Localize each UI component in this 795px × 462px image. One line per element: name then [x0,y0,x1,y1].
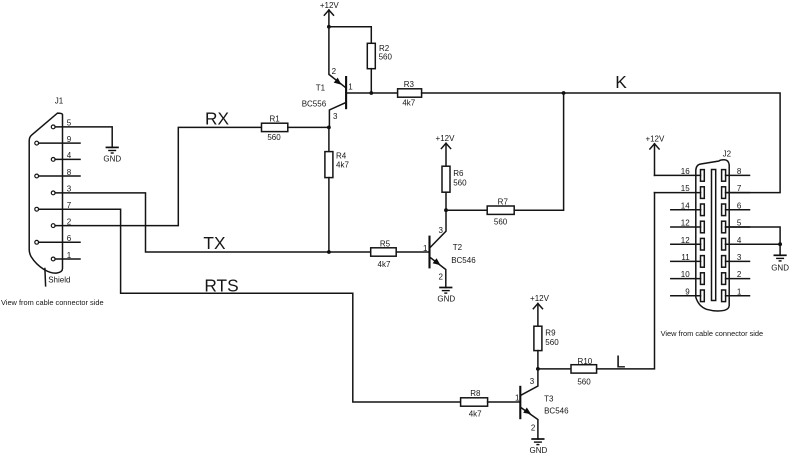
transistor T2 NPN emitter arrow [433,258,441,265]
J2 pin 8 [722,167,750,181]
svg-text:2: 2 [439,273,444,282]
svg-text:6: 6 [737,201,742,210]
J1 pin 7 [35,201,72,211]
J2 pin 4 [722,236,750,250]
wire J2 pin 5 to ground drop [726,227,781,244]
svg-text:+12V: +12V [530,294,550,303]
svg-text:T3: T3 [544,395,554,404]
svg-text:14: 14 [681,201,690,210]
resistor R9 [534,326,559,350]
svg-text:560: 560 [577,377,591,386]
svg-text:9: 9 [685,287,690,296]
wire J1 pin 5 to ground [55,127,112,147]
svg-text:1: 1 [423,244,428,253]
svg-text:BC556: BC556 [302,100,327,109]
transistor T3 emitter lead [521,407,538,439]
wire RX net: J1 pin 2 up to RX line [55,127,261,225]
svg-text:3: 3 [737,253,742,262]
node K/R7 riser junction [562,91,566,95]
transistor T2 emitter lead [430,257,446,287]
svg-text:R8: R8 [470,389,481,398]
svg-text:16: 16 [681,167,690,176]
svg-text:R6: R6 [453,169,464,178]
J2 pin 7 [722,184,750,198]
wire T3 node to R10 [538,368,571,370]
wire L net: R10 to J2 pin 15 [597,193,655,369]
svg-text:R1: R1 [269,114,280,123]
ground (T3 emitter) [530,439,548,455]
J2 pin 16 [655,167,705,181]
transistor T2 base bar [428,236,430,269]
node +12V/T1 emitter/R2 junction [327,25,331,29]
svg-text:+12V: +12V [436,134,456,143]
J1 pin 9 [35,135,80,145]
wire R2 bottom to T1 base line [370,69,372,93]
J2 pin 10 [671,270,705,284]
svg-text:View from cable connector side: View from cable connector side [1,298,104,307]
svg-text:R4: R4 [336,152,347,161]
resistor R4 [325,152,350,178]
transistor T3 NPN emitter arrow [523,408,531,415]
wire +12V node to R2 top [329,27,371,44]
wire R6 bottom to T2 node [445,192,447,210]
svg-text:Shield: Shield [48,276,70,285]
node R2/base wire junction [369,91,373,95]
svg-text:560: 560 [267,133,281,142]
svg-text:2: 2 [531,423,536,432]
svg-text:BC546: BC546 [544,407,569,416]
node R6/R7/T2 collector junction [444,208,448,212]
resistor R5 [371,239,397,269]
svg-text:3: 3 [333,112,338,121]
connector J2 center key bar [712,170,716,301]
resistor R2 [367,43,392,68]
svg-text:K: K [615,72,627,92]
svg-text:560: 560 [545,338,559,347]
ground (J2 pins 4/5) [771,255,789,272]
svg-text:1: 1 [348,82,353,91]
transistor T1 collector lead [329,102,346,127]
svg-text:RTS: RTS [204,276,238,296]
svg-text:560: 560 [453,179,467,188]
J2 pin 3 [722,253,750,267]
wire T1 base to R3 [346,92,398,94]
node TX/R4 junction [327,250,331,254]
svg-text:R2: R2 [379,44,390,53]
+12V supply symbol (J2 pin 16) [645,135,665,176]
svg-text:GND: GND [771,263,789,272]
svg-text:R7: R7 [498,197,509,206]
connector J1 outline [29,113,62,273]
wire R4 bottom to TX node [328,178,330,252]
J2 pin 15 [655,184,705,198]
svg-text:R5: R5 [380,239,391,248]
svg-text:1: 1 [67,251,72,260]
transistor T3 base bar [519,386,521,419]
svg-text:9: 9 [67,135,72,144]
transistor T1 base bar [345,76,347,109]
connector J2 outline [696,160,729,311]
J1 pin 8 [35,168,80,178]
wire R7 to K line [514,93,563,210]
svg-text:12: 12 [681,219,690,228]
resistor R3 [398,80,422,108]
resistor R6 [442,166,467,192]
wire J2 pin 4 to ground drop [726,243,781,245]
shield lead [44,269,47,286]
svg-text:+12V: +12V [320,1,340,10]
svg-text:15: 15 [681,184,690,193]
svg-text:12: 12 [681,236,690,245]
node RX/R1/T1 collector/R4 junction [327,126,331,130]
J1 pin 3 [51,185,72,195]
svg-text:L: L [616,352,626,372]
J2 pin 9 [671,287,705,301]
svg-text:View from cable connector side: View from cable connector side [661,329,764,338]
svg-text:6: 6 [67,234,72,243]
J1 pin 5 [51,119,72,129]
transistor T1 PNP emitter arrow [334,78,342,85]
J2 pin 6 [722,201,750,215]
resistor R7 [487,197,514,226]
svg-text:R10: R10 [578,357,593,366]
wire R1 to RX node [288,126,329,128]
node R9/R10/T3 collector junction [536,367,540,371]
resistor R10 [571,357,597,386]
svg-text:R9: R9 [545,328,556,337]
resistor R8 [461,389,488,418]
svg-text:GND: GND [103,155,121,164]
transistor Q T1 emitter lead [329,27,346,88]
svg-text:560: 560 [379,53,393,62]
svg-text:3: 3 [439,226,444,235]
svg-text:7: 7 [737,184,742,193]
svg-text:4k7: 4k7 [469,410,482,419]
J2 pin 12 [671,236,705,250]
J1 pin 6 [35,234,80,244]
svg-text:1: 1 [515,394,520,403]
svg-text:GND: GND [437,295,455,304]
svg-text:RX: RX [205,109,229,129]
J2 pin 1 [722,287,750,301]
svg-text:GND: GND [530,446,548,455]
svg-text:4k7: 4k7 [402,99,415,108]
wire R5 to T2 base [396,251,429,253]
J2 pin 5 [722,219,750,233]
J2 pin 11 [671,253,705,267]
svg-text:4k7: 4k7 [378,260,391,269]
ground (T2 emitter) [437,288,455,304]
svg-text:J2: J2 [723,150,732,159]
svg-text:J1: J1 [55,97,64,106]
J1 pin 4 [51,151,80,161]
svg-text:1: 1 [737,287,742,296]
wire RX node to R4 [328,127,330,151]
wire R8 to T3 base [488,401,521,403]
J1 pin 1 [51,251,80,261]
svg-text:2: 2 [332,67,337,76]
svg-text:TX: TX [203,233,226,253]
svg-text:4k7: 4k7 [336,160,349,169]
+12V supply symbol (T1) [320,1,340,27]
svg-text:+12V: +12V [645,135,665,144]
svg-text:8: 8 [737,167,742,176]
J1 pin 2 [51,217,72,227]
svg-text:8: 8 [67,168,72,177]
svg-text:R3: R3 [404,80,415,89]
transistor T2 collector lead [430,210,446,248]
J2 pin 13 (labelled 12) [671,219,705,233]
svg-text:11: 11 [681,253,690,262]
wire T2 node to R7 [446,209,487,211]
J2 pin 14 [671,201,705,215]
wire ground drop (J2) [779,244,781,255]
wire K net: R3 to J2 pin 7 [422,93,780,193]
ground (J1 pin 5) [103,147,121,163]
svg-text:2: 2 [737,270,742,279]
transistor T3 collector lead [521,369,538,395]
wire TX net: J1 pin 3 to R5 [55,193,371,252]
node J2 pin4/pin5 ground junction [778,242,782,246]
wire RTS net: J1 pin 7 to R8 [39,209,461,402]
svg-text:560: 560 [494,218,508,227]
svg-text:3: 3 [530,377,535,386]
svg-text:BC546: BC546 [451,256,476,265]
+12V supply symbol (T3) [530,294,550,326]
resistor R1 [262,114,288,141]
svg-text:10: 10 [681,270,690,279]
+12V supply symbol (T2) [436,134,456,166]
J2 pin 2 [722,270,750,284]
svg-text:4: 4 [67,151,72,160]
wire R9 bottom to T3 node [537,351,539,369]
svg-text:T1: T1 [316,84,326,93]
svg-text:T2: T2 [453,243,463,252]
